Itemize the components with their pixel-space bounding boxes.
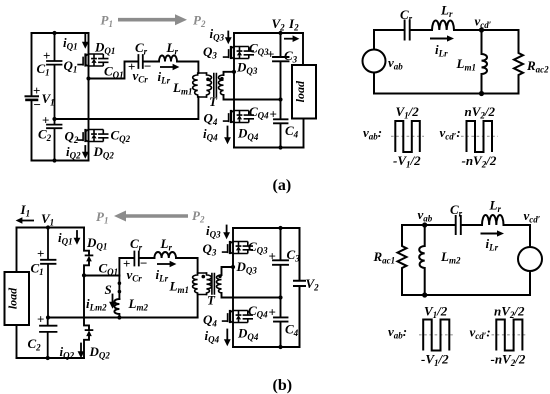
wire top rail (b) secondary: [233, 227, 300, 229]
current arrow iQ3 head (b): [223, 232, 230, 239]
capacitor Cr (a): [138, 55, 142, 68]
capacitor Cr (b): [134, 252, 138, 266]
current arrow iLr (a): [160, 66, 174, 68]
wire Lr to Lm1 (a): [177, 62, 198, 74]
diode DQ1 (b): [86, 254, 93, 256]
inductor Lm1 (b): [193, 273, 207, 295]
waveform vab zero axis (a): [391, 135, 424, 137]
diode DQ1 triangle (b): [86, 256, 92, 262]
wire iQ2 arrow shaft: [84, 146, 86, 154]
wire DQ1 leg with jog (b): [84, 228, 89, 276]
node dot top rail C1 (b): [46, 225, 50, 229]
transformer T primary winding (b): [207, 273, 212, 295]
waveform vab square wave (b): [423, 320, 449, 351]
node dot top rail C1 (a): [52, 31, 56, 35]
node dot C1/C2 midpoint (a): [52, 117, 56, 121]
svg-text:−: −: [34, 97, 41, 112]
waveform vab zero axis (b): [419, 334, 454, 336]
wire Lr to vcd corner (b-equiv): [504, 224, 531, 226]
svg-text:+: +: [42, 113, 49, 128]
node dot bridge midpoint (a): [86, 76, 90, 80]
inductor Lm2 branch (b-equiv): [419, 225, 425, 295]
node dot vab top (b-equiv): [422, 222, 427, 227]
current arrow iQ1 head: [82, 42, 89, 49]
voltage source vcd circle (b-equiv): [518, 247, 542, 271]
wire iQ1 arrow shaft: [84, 35, 86, 44]
capacitor C2: [47, 119, 62, 161]
transformer T primary winding (a): [207, 73, 212, 97]
wire iQ4 arrow shaft: [227, 127, 229, 139]
wire iQ3 arrow shaft: [227, 32, 229, 40]
capacitor C3 (b): [273, 228, 288, 298]
wire top rail (b) primary: [17, 227, 85, 229]
node dot C3 top rail (b): [278, 226, 282, 230]
wire bottom rail (b) primary: [17, 357, 85, 359]
wire bottom rail (a) secondary: [234, 147, 304, 149]
current arrow iQ2 head (b): [78, 351, 85, 358]
wire bottom rail (a) primary: [32, 160, 89, 162]
capacitor Cr (b-equiv): [456, 216, 461, 234]
transformer T secondary winding (a): [219, 75, 224, 95]
node dot C3/C4 midpoint (b): [278, 295, 282, 299]
capacitor C1: [47, 33, 62, 119]
transistor Q4: [223, 110, 254, 123]
switch S wire (b): [118, 276, 120, 300]
node dot C3 top rail (a): [278, 31, 282, 35]
svg-text:load: load: [6, 287, 20, 309]
current arrow iLr (b): [157, 263, 171, 265]
diode DQ2 triangle (b): [86, 330, 92, 336]
node dot DQ3 midpoint (a): [232, 70, 236, 74]
current arrow iLm2 head (b): [109, 302, 116, 309]
svg-text:(b): (b): [273, 377, 293, 394]
current arrow iQ4 head: [224, 137, 231, 144]
waveform vcd zero axis (a): [461, 135, 498, 137]
capacitor C4 (b): [274, 298, 288, 348]
current arrow iQ2 head: [82, 152, 89, 159]
inductor Lr (b-equiv): [482, 215, 504, 225]
inductor Lr (a): [159, 56, 177, 62]
wire secondary bottom lead to capacitor midpoint (a): [224, 95, 281, 100]
current arrow I1 (b): [21, 220, 34, 222]
wire left rail (a): [31, 33, 33, 161]
wire Lr to vcd node (a-equiv): [454, 29, 519, 31]
current arrow I2: [284, 38, 294, 40]
node dot bottom rail C2 (b): [46, 356, 50, 360]
svg-text:S: S: [105, 282, 112, 297]
wire midpoint to resonant tank (a): [89, 62, 138, 79]
node dot vcd top (a-equiv): [479, 27, 484, 32]
wire Cr to Lr (a): [144, 61, 159, 63]
wire bottom (b-equiv): [402, 294, 530, 296]
wire iQ1 arrow shaft (b): [76, 231, 78, 240]
wire Lr to Lm1 (b): [176, 258, 198, 273]
node dot C1/C2 midpoint (b): [46, 315, 50, 319]
svg-text:+: +: [269, 249, 276, 264]
node dot bottom rail C2 (a): [52, 158, 56, 162]
inductor Lm1 (a): [193, 73, 207, 97]
inductor Lr (b): [154, 252, 176, 258]
wire top rail (a) primary: [32, 32, 89, 34]
wire load top connection (a): [302, 33, 304, 65]
transformer T secondary winding (b): [217, 275, 222, 293]
svg-text:+: +: [267, 47, 274, 62]
svg-text:+: +: [37, 246, 44, 261]
wire iQ2 arrow shaft (b): [80, 344, 82, 354]
power flow arrow P2 to P1 (b): [125, 214, 188, 218]
current arrow iLr (b-equiv): [481, 233, 499, 235]
svg-text:-nV2/2: -nV2/2: [462, 153, 497, 170]
svg-text:nV2/2: nV2/2: [465, 104, 496, 121]
transistor Q3 (b): [222, 241, 253, 254]
node dot C4 bottom rail (b): [278, 345, 282, 349]
wire secondary bridge leg (a) Q3/Q4: [233, 33, 235, 148]
wire load bottom connection (b): [16, 325, 18, 358]
svg-text:nV2/2: nV2/2: [494, 304, 525, 321]
wire top (b-equiv): [402, 224, 454, 226]
load resistor (a): [292, 65, 316, 119]
inductor Lm1 branch (a-equiv): [482, 30, 488, 94]
power flow arrow P1 to P2 (a): [118, 18, 176, 22]
node dot Lm2 bottom (b): [117, 315, 121, 319]
node dot C3/C4 midpoint (a): [278, 97, 282, 101]
svg-text:(a): (a): [273, 177, 292, 194]
voltage source vab circle (a-equiv): [363, 50, 386, 73]
waveform vab square wave (a): [395, 121, 420, 152]
waveform vcd square wave (a): [467, 121, 493, 152]
wire riser to Cr (b): [119, 258, 133, 276]
wire Cr to Lr (b): [140, 257, 154, 259]
load resistor (b): [5, 272, 30, 325]
diode DQ2 (b): [86, 329, 93, 331]
waveform vcd square wave (b): [496, 320, 522, 351]
wire iQ4 arrow shaft (b): [226, 330, 228, 341]
source V1 plate2: [27, 99, 38, 102]
transformer polarity dot primary (a): [206, 78, 210, 82]
capacitor Cr (a-equiv): [405, 21, 410, 40]
current arrow iQ4 head (b): [224, 339, 231, 346]
switch S contact dots (b): [118, 281, 122, 285]
wire top rail (a) secondary: [234, 32, 303, 34]
svg-text:+: +: [270, 107, 277, 122]
node dot bottom (a-equiv): [479, 91, 484, 96]
node dot C4 bottom rail (a): [278, 145, 282, 149]
transistor Q1: [77, 53, 108, 66]
inductor Lr (a-equiv): [432, 21, 454, 30]
transformer T core (b): [212, 274, 215, 295]
resistor Rac2 (a-equiv): [514, 30, 523, 94]
wire left rail (b): [16, 228, 18, 273]
wire iQ3 arrow shaft (b): [226, 226, 228, 235]
node dot bottom (b-equiv): [422, 292, 427, 297]
transistor Q4 (b): [222, 310, 253, 323]
wire iLm2 arrow shaft (b): [112, 295, 114, 304]
transistor Q3: [223, 46, 254, 59]
svg-text:+: +: [269, 305, 276, 320]
svg-text:-nV2/2: -nV2/2: [491, 352, 526, 369]
wire left branch vab source (a-equiv): [373, 30, 375, 94]
wire transformer return to C1/C2 midpoint (a): [55, 97, 199, 119]
wire load bottom connection (a): [303, 119, 305, 148]
wire top (a-equiv) left segment: [374, 29, 403, 31]
svg-text:−: −: [144, 59, 151, 74]
capacitor C3: [273, 33, 289, 100]
current arrow iQ3 head: [225, 37, 232, 44]
svg-text:+: +: [37, 312, 44, 327]
wire secondary top lead to bridge midpoint (b): [222, 267, 234, 275]
wire secondary bridge leg (b) Q3/Q4: [232, 228, 234, 347]
resistor Rac1 (b-equiv): [398, 225, 407, 295]
svg-text:load: load: [293, 80, 307, 102]
transformer polarity dot primary (b): [202, 275, 206, 279]
transistor Q2: [77, 129, 108, 142]
transformer T core (a): [214, 74, 217, 97]
wire right branch vcd source (b-equiv): [529, 225, 531, 295]
capacitor C4: [274, 100, 288, 148]
node dot CQ1 (b): [82, 273, 86, 277]
current arrow iLr (a-equiv): [430, 38, 448, 40]
current arrow iQ1 head (b): [74, 238, 81, 245]
inductor Lm2 (b): [114, 299, 119, 318]
wire midpoint rail (b): [48, 317, 198, 319]
wire secondary top lead to bridge midpoint (a): [224, 72, 235, 75]
svg-text:T: T: [207, 293, 216, 308]
wire DQ2 leg with jog (b): [84, 275, 89, 358]
wire bottom rail (b) secondary: [233, 346, 300, 348]
svg-text:−: −: [140, 256, 147, 271]
wire secondary bottom lead to capacitor midpoint (b): [222, 293, 281, 298]
node dot DQ3 midpoint (b): [231, 265, 235, 269]
svg-text:T: T: [209, 94, 218, 109]
source V2 (b): [294, 228, 305, 347]
source V1: [26, 95, 39, 97]
capacitor C2 (b): [40, 318, 57, 359]
transformer polarity dot secondary (b): [218, 274, 222, 278]
wire bottom (a-equiv): [374, 93, 519, 95]
transformer polarity dot secondary (a): [220, 77, 224, 81]
wire CQ1 node to tank riser (b): [84, 275, 119, 277]
wire half-bridge leg (a) Q1/Q2: [88, 33, 90, 161]
wire Cr to Lr (b-equiv): [462, 224, 482, 226]
wire transformer return (b): [197, 295, 199, 318]
capacitor C1 (b): [41, 228, 56, 318]
svg-text:+: +: [33, 83, 40, 98]
wire Cr to Lr (a-equiv): [411, 29, 432, 31]
waveform vcd zero axis (b): [492, 334, 528, 336]
